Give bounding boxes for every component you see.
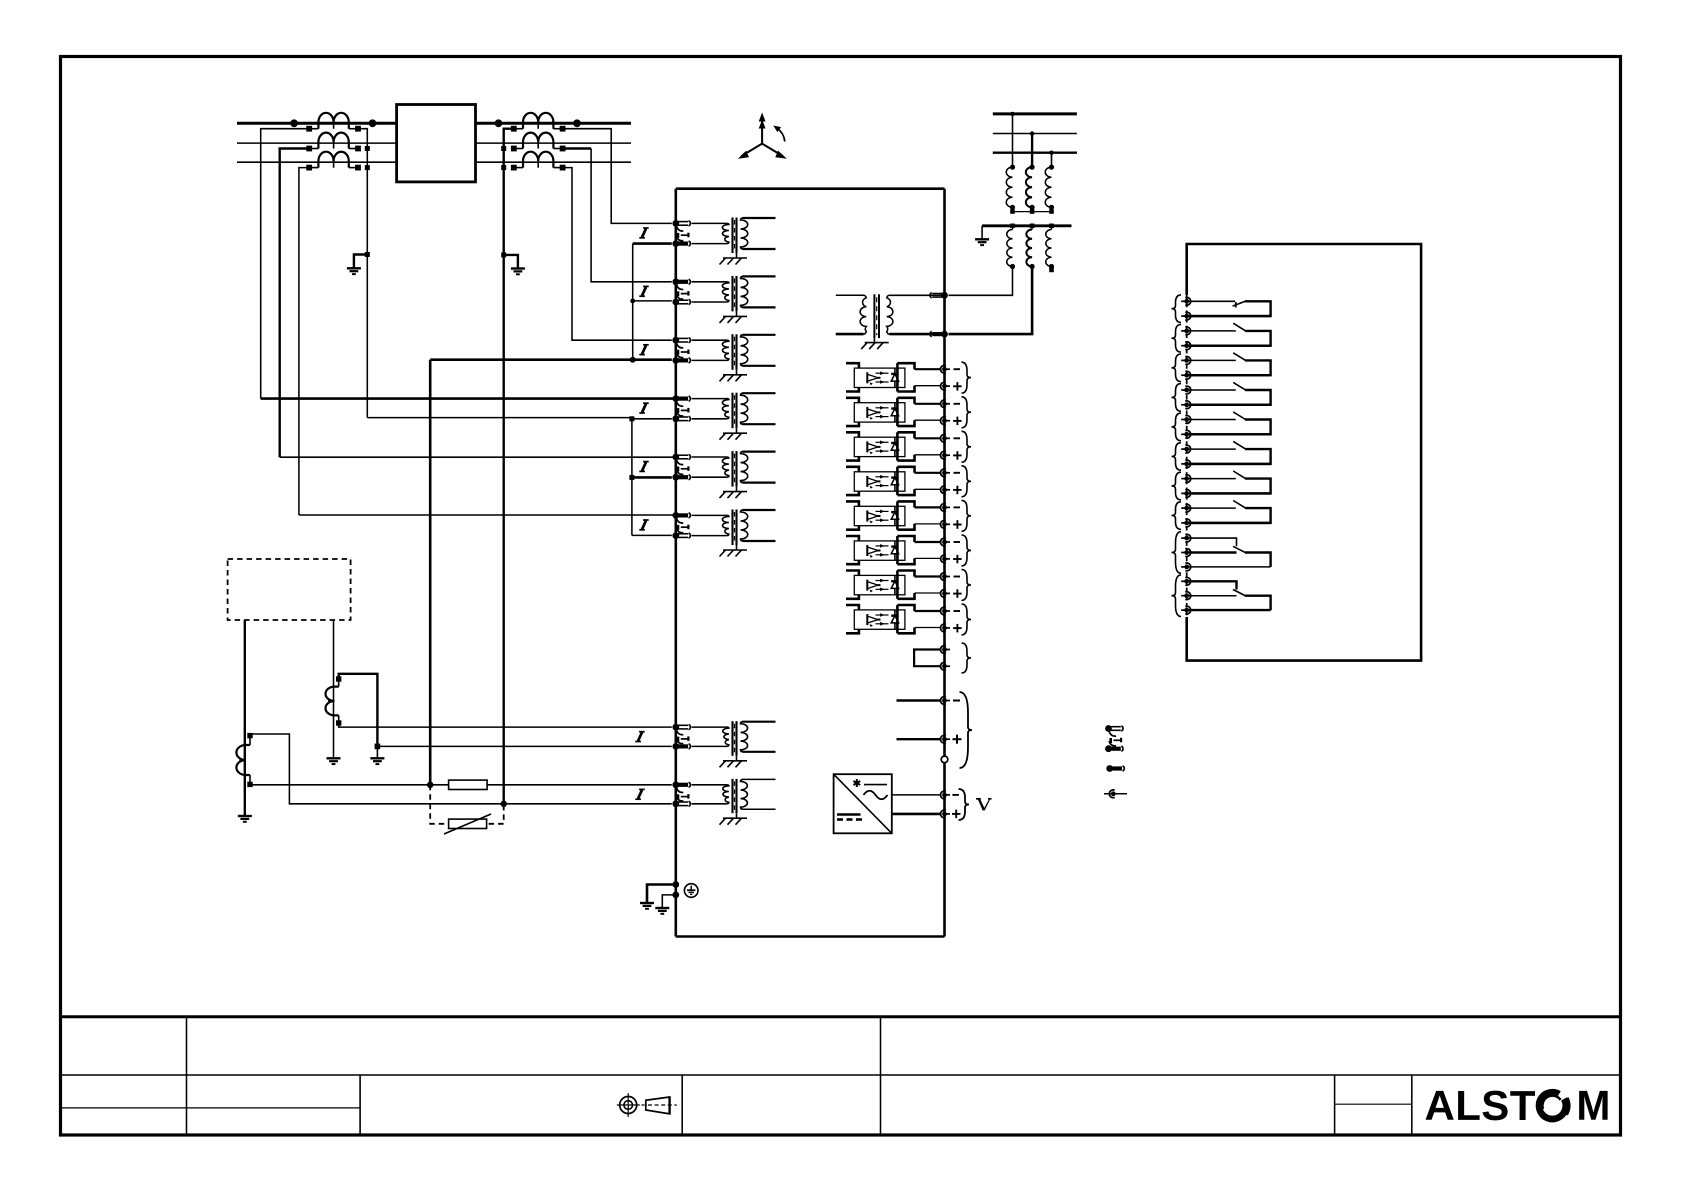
power transformer T1 (protected object): [397, 105, 476, 182]
VT primary star point link: [1010, 205, 1015, 210]
power supply unit (AC/DC converter): [834, 774, 892, 833]
brace opto input L6: [962, 535, 972, 566]
input transformer T2: [692, 276, 776, 323]
wire CT1C polarity lead to relay input I6: [299, 168, 309, 515]
opto input L7: [846, 571, 942, 599]
relay case earth terminals: [672, 881, 679, 888]
legend: ring terminal symbol: [1104, 793, 1127, 795]
auxiliary supply terminals: [942, 698, 947, 703]
svg-text:M: M: [1576, 1082, 1610, 1129]
opto input L6: [846, 536, 942, 564]
opto input L3: [846, 432, 942, 460]
CT 1A (phase L1, left set): [306, 113, 361, 132]
opto input L5: [846, 501, 942, 529]
opto input L4: [846, 467, 942, 495]
wire input I3 star return to REF node: [430, 358, 672, 361]
VT secondary common bar: [982, 224, 1071, 227]
relay current input I3 terminals: [672, 337, 690, 364]
brace opto input L5: [962, 500, 972, 531]
brace output contact RL3: [1172, 354, 1182, 382]
output contact RL5: [1189, 412, 1271, 434]
output contact RL1 terminals: [1184, 299, 1189, 304]
CT 1B (phase L2, left set): [306, 133, 361, 152]
brace auxiliary supply: [960, 692, 973, 768]
brace opto input L1: [962, 362, 972, 393]
label I (input 1): [643, 227, 649, 229]
svg-text:ALST: ALST: [1424, 1082, 1535, 1129]
title block row divider: [60, 1074, 1620, 1076]
relay current input I8 terminals: [672, 781, 690, 807]
brace output changeover RL10: [1172, 575, 1182, 617]
output changeover contact RL10: [1189, 581, 1271, 610]
CT 2A (phase L1, right set): [511, 113, 566, 132]
wire CT2B lead to relay input I2: [563, 147, 592, 149]
station busbar L2 (VT section): [993, 133, 1077, 135]
wire CT2C lead to relay input I3: [563, 168, 672, 341]
output changeover contact RL9: [1189, 538, 1271, 567]
VT secondary bar earth lead: [981, 226, 983, 240]
wire inputs I1-I3 common: [632, 244, 634, 360]
wire CT1B polarity lead to relay input I5: [280, 149, 310, 458]
ALSTOM logo: [1424, 1082, 1610, 1129]
wire CT2A lead to relay input I1: [563, 129, 672, 224]
label I (input 3): [643, 344, 649, 346]
input transformer T1: [692, 218, 776, 265]
CT set 2 common wire to REF circuit: [504, 129, 514, 804]
CT set 2 earth connection: [504, 255, 518, 269]
CT 2C (phase L3, right set): [511, 152, 566, 171]
VT primary winding phase A: [1006, 167, 1012, 207]
output contact RL8: [1189, 501, 1271, 523]
brace output changeover RL9: [1172, 532, 1182, 574]
wire CT4 to relay input I7 (top lead): [339, 674, 378, 747]
output contact RL4: [1189, 382, 1271, 404]
wire VT secondary B to relay voltage input: [949, 267, 1033, 335]
opto input L6 terminals: [940, 538, 961, 563]
varistor RV1 (metrosil): [430, 785, 504, 834]
wire VT secondary A to relay voltage input: [949, 267, 1013, 296]
opto input L4 terminals: [941, 469, 962, 494]
ground (left lead): [238, 815, 252, 817]
junction A (REF resistor node): [427, 782, 433, 788]
busbar phase L2: [237, 142, 397, 144]
station busbar L1 (VT section): [993, 112, 1077, 115]
terminal link (shorted pair): [914, 650, 941, 667]
VT secondary winding phase C: [1049, 224, 1054, 229]
brace output contact RL4: [1172, 384, 1182, 412]
wire PSU to field voltage terminals: [892, 794, 942, 796]
output contact RL7: [1189, 471, 1271, 493]
label I (input 4): [643, 402, 649, 404]
protective earth symbol (circled): [684, 884, 698, 898]
field voltage output terminals: [942, 793, 947, 798]
opto input L8 terminals: [940, 607, 961, 632]
brace opto input L8: [962, 604, 972, 635]
label I (input 6): [643, 519, 649, 521]
brace opto input L2: [962, 397, 972, 428]
brace opto input L7: [962, 570, 972, 601]
wire CT4 to relay input I7 (bottom lead): [339, 723, 672, 727]
stabilising resistor R1: [430, 784, 448, 786]
wire CT5 top lead to relay input I8 (via REF): [250, 734, 672, 804]
input transformer T7: [692, 721, 776, 767]
wire CT1A polarity lead to relay input I4: [261, 129, 310, 399]
brace output contact RL5: [1172, 413, 1182, 441]
relay current input I6 terminals: [672, 512, 690, 539]
output contact RL6 terminals: [1184, 447, 1189, 452]
relay case outline: [676, 187, 945, 190]
wire CT4 earth stem: [376, 746, 378, 758]
brace field voltage: [959, 789, 970, 820]
VT primary winding phase C: [1045, 167, 1051, 207]
VT primary taps: [1012, 114, 1014, 167]
relay current input I5 terminals: [672, 454, 690, 481]
external source box (dashed): [228, 559, 351, 620]
opto input L7 terminals: [940, 573, 961, 598]
CT 1C (phase L3, left set): [306, 152, 361, 171]
output contact RL3: [1189, 353, 1271, 375]
input transformer T5: [692, 451, 776, 498]
brace output contact RL7: [1172, 472, 1182, 500]
brace output contact RL1: [1172, 295, 1182, 323]
input transformer T8: [692, 779, 776, 825]
relay current input I1 terminals: [672, 220, 690, 247]
input transformer T6: [692, 510, 776, 557]
CT 2B (phase L2, right set): [511, 133, 566, 152]
output contact RL2: [1189, 323, 1271, 346]
CT 4 (neutral CT on right lead): [325, 676, 341, 725]
ground (CT4 earth): [370, 757, 384, 759]
label I (input 7): [639, 731, 645, 733]
opto input L2: [846, 398, 942, 426]
relay current input I2 terminals: [672, 278, 690, 305]
input transformer T4: [692, 393, 776, 440]
VT primary winding phase B: [1026, 167, 1032, 207]
output contact RL2 terminals: [1184, 329, 1189, 334]
junction B (varistor node): [501, 801, 507, 807]
output changeover contact RL10 terminals: [1184, 579, 1189, 584]
wire CT5 bottom lead to stabilising resistor: [250, 783, 430, 785]
brace output contact RL6: [1172, 443, 1182, 471]
ground (earth terminal 2): [655, 907, 669, 909]
junction CT4 earth point: [375, 744, 381, 750]
wire dashed-source right lead: [333, 620, 335, 758]
output contact RL1 (normally closed): [1189, 301, 1271, 316]
busbar phase L1: [237, 122, 397, 125]
relay current input I4 terminals: [672, 395, 690, 422]
line connection dots on L1: [290, 119, 581, 127]
label I (input 8): [639, 788, 645, 790]
label I (input 5): [643, 461, 649, 463]
ground (earth terminal 1): [640, 902, 654, 904]
label V: [976, 798, 981, 800]
opto input L2 terminals: [940, 400, 961, 425]
opto input L8: [846, 605, 942, 633]
ground CT set 1 star: [347, 267, 361, 269]
legend: plug terminal symbol: [1106, 765, 1113, 772]
brace opto input L3: [962, 431, 972, 462]
CT set 1 star earth connection: [354, 255, 367, 269]
wire dashed-source left lead: [244, 620, 246, 816]
station busbar L3 (VT section): [993, 151, 1077, 153]
output contact RL8 terminals: [1184, 506, 1189, 511]
first-angle projection symbol: [617, 1093, 677, 1117]
output contact RL4 terminals: [1184, 388, 1189, 393]
title block sub-row dividers: [59, 1107, 360, 1109]
VT secondary winding phase A: [1010, 224, 1015, 229]
wire earth terminal 1 to ground: [647, 885, 676, 904]
opto input L5 terminals: [941, 504, 962, 529]
input transformer T3: [692, 334, 776, 381]
title block top rule: [59, 1015, 1621, 1018]
VT secondary winding phase B: [1030, 224, 1035, 229]
wire earth terminal 2 to ground: [662, 895, 676, 908]
brace opto input L4: [962, 466, 972, 497]
output contact RL5 terminals: [1184, 417, 1189, 422]
output contact RL7 terminals: [1184, 476, 1189, 481]
output changeover contact RL9 terminals: [1184, 536, 1189, 541]
brace output contact RL2: [1172, 325, 1182, 353]
CT 5 (neutral CT on left lead): [236, 733, 252, 787]
opto input L1: [846, 363, 942, 391]
CT set 1 star point wire: [358, 129, 367, 418]
label I (input 2): [643, 285, 649, 287]
output relay module case: [1187, 244, 1421, 661]
ground CT set 2: [511, 267, 525, 269]
busbar phase L3: [237, 161, 397, 163]
ground VT secondary: [975, 238, 989, 240]
opto input L3 terminals: [940, 434, 961, 459]
phase rotation symbol: [738, 113, 787, 159]
auxiliary supply input stubs: [897, 699, 942, 701]
ground (right lead): [327, 757, 341, 759]
relay current input I7 terminals: [672, 724, 690, 750]
legend: CT shorting terminal pair symbol: [1105, 725, 1123, 752]
terminal link terminals: [942, 647, 947, 652]
output contact RL3 terminals: [1184, 358, 1189, 363]
wire inputs I4-I6 common: [631, 419, 633, 536]
opto input L1 terminals: [941, 365, 962, 390]
title block vertical dividers: [186, 1017, 188, 1135]
brace terminal link: [962, 643, 972, 673]
relay voltage input transformer: [836, 294, 942, 349]
output contact RL6: [1189, 441, 1271, 464]
relay voltage input terminals: [941, 292, 948, 299]
brace output contact RL8: [1172, 502, 1182, 530]
